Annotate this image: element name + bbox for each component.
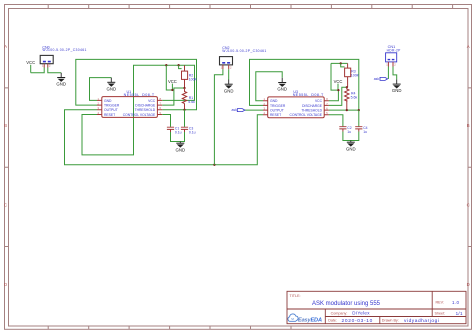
- zone letters left: [4, 44, 7, 287]
- ground (U1): [107, 78, 117, 92]
- capacitor C2: [339, 126, 351, 134]
- svg-text:ask: ask: [232, 108, 238, 112]
- ground (U3): [277, 78, 287, 92]
- wire U3 GND pin to ground symbol: [256, 72, 282, 101]
- wire CN2 pin1 to bottom rail: [214, 69, 223, 165]
- U1 pin stubs left: [97, 100, 102, 114]
- svg-text:A: A: [4, 44, 7, 49]
- wire CONTROL VOLTAGE to C1: [162, 115, 170, 127]
- svg-text:TRIGGER: TRIGGER: [104, 104, 120, 108]
- svg-text:Company:: Company:: [331, 311, 348, 315]
- EasyEDA logo: [288, 314, 322, 323]
- svg-text:RESET: RESET: [270, 113, 281, 117]
- svg-text:CONTROL VOLTAGE: CONTROL VOLTAGE: [123, 113, 156, 117]
- svg-text:1.0: 1.0: [452, 300, 460, 305]
- svg-text:0.1u: 0.1u: [189, 130, 196, 134]
- wire CN0 pin2 to ground: [48, 68, 61, 73]
- ground (CN2): [224, 80, 234, 94]
- svg-text:TRIGGER: TRIGGER: [270, 104, 286, 108]
- svg-text:CONTROL VOLTAGE: CONTROL VOLTAGE: [290, 113, 323, 117]
- svg-text:D: D: [467, 282, 470, 287]
- net flag ask (U3 output): [232, 108, 264, 112]
- CN2 pin 1: [221, 65, 223, 69]
- wire DISCHARGE to R2/R1 node: [162, 88, 184, 105]
- svg-text:D: D: [4, 282, 7, 287]
- svg-text:GND: GND: [224, 88, 234, 93]
- wire rail2 down to VCC label node: [166, 65, 172, 90]
- junction on bottom rail (CN2 tap): [213, 164, 215, 166]
- CN1 pin 1: [386, 62, 388, 67]
- wire OUTPUT of U1 to bottom rail: [65, 110, 264, 165]
- CN2 pin 2: [229, 65, 232, 69]
- svg-text:THRESHOLD: THRESHOLD: [135, 108, 156, 112]
- wire C2/C4 bottoms to ground: [343, 132, 359, 141]
- svg-text:GND: GND: [107, 86, 117, 91]
- wire TRIGGER loop (trigger-threshold): [76, 59, 197, 109]
- svg-text:GND: GND: [270, 99, 278, 103]
- svg-text:RESET: RESET: [104, 113, 115, 117]
- U1 pin names: [104, 99, 120, 117]
- CN0 pin 1: [42, 64, 44, 68]
- svg-text:ask: ask: [374, 77, 380, 81]
- connector CN2: [220, 46, 267, 65]
- svg-text:5.6k: 5.6k: [188, 100, 195, 104]
- svg-text:100K: 100K: [351, 73, 360, 77]
- svg-text:Sheet:: Sheet:: [435, 311, 446, 315]
- wire C1/C3 bottoms to ground: [171, 132, 185, 142]
- svg-text:EasyEDA: EasyEDA: [298, 317, 322, 323]
- svg-text:2020-03-10: 2020-03-10: [342, 318, 374, 324]
- svg-text:NE555L_D08-T: NE555L_D08-T: [293, 93, 324, 97]
- svg-text:DISCHARGE: DISCHARGE: [135, 104, 156, 108]
- svg-text:WJ100-5.00-2P_C30461: WJ100-5.00-2P_C30461: [42, 48, 86, 52]
- zone letters right: [467, 44, 470, 287]
- svg-text:Drawn By:: Drawn By:: [382, 319, 399, 323]
- wire CN1 pin1 down to ask flag: [387, 67, 389, 79]
- connector CN1: [386, 45, 402, 62]
- IC U3 NE555 timer: [268, 90, 325, 118]
- right border zone ticks: [468, 88, 472, 247]
- svg-text:OUTPUT: OUTPUT: [104, 108, 118, 112]
- svg-text:ASK modulator using 555: ASK modulator using 555: [312, 301, 381, 307]
- svg-text:VCC: VCC: [315, 99, 323, 103]
- bottom border zone ticks: [48, 326, 291, 329]
- wire CN2 pin2 to ground: [228, 69, 230, 79]
- svg-text:0.1u: 0.1u: [175, 130, 182, 134]
- capacitor C4: [355, 126, 367, 134]
- wire rail2 jog to R2 body corner: [179, 65, 182, 68]
- ground (CN0): [56, 73, 66, 87]
- wire U1 GND pin to ground symbol: [90, 78, 112, 101]
- svg-text:HDR-2P: HDR-2P: [387, 49, 402, 53]
- svg-text:C: C: [467, 203, 470, 208]
- svg-text:DISCHARGE: DISCHARGE: [302, 104, 323, 108]
- svg-text:DIYelex: DIYelex: [352, 311, 370, 316]
- CN1 pin 2: [393, 62, 396, 67]
- ground (C2/C4): [346, 141, 356, 152]
- U3 pin numbers: [264, 97, 329, 115]
- svg-text:VCC: VCC: [168, 79, 177, 84]
- svg-text:GND: GND: [176, 147, 186, 152]
- svg-text:1u: 1u: [347, 130, 351, 134]
- CN0 pin 2: [48, 64, 51, 68]
- junction VCC label node: [171, 89, 173, 91]
- junction threshold node (U3): [346, 109, 348, 111]
- svg-text:100K: 100K: [189, 77, 198, 81]
- svg-text:B: B: [4, 123, 7, 128]
- resistor R4: [345, 87, 358, 110]
- U3 pin stubs right: [324, 101, 329, 115]
- U3 pin stubs left: [263, 101, 268, 115]
- svg-text:OUTPUT: OUTPUT: [270, 109, 284, 113]
- svg-text:vidyadharjogi: vidyadharjogi: [404, 318, 439, 324]
- wire U3 VCC pin up to mini rail: [329, 90, 339, 101]
- svg-text:1/1: 1/1: [456, 311, 463, 316]
- svg-text:VCC: VCC: [148, 99, 156, 103]
- svg-text:Date:: Date:: [328, 319, 337, 323]
- svg-text:TITLE:: TITLE:: [290, 294, 301, 298]
- svg-text:A: A: [467, 44, 470, 49]
- VCC net label (U1): [168, 79, 177, 90]
- net flag ask (CN1): [374, 77, 388, 81]
- wire CN1 pin2 to ground: [393, 67, 397, 80]
- junction mini rail / R3 corner branch: [340, 62, 342, 64]
- svg-text:GND: GND: [277, 87, 287, 92]
- wire threshold node down to C3: [184, 110, 186, 127]
- junction R3/R4: [346, 86, 348, 88]
- wire jog to R3 body corner: [341, 63, 345, 67]
- resistor R2: [182, 65, 198, 88]
- wire U3 TRIGGER loop: [250, 59, 359, 110]
- svg-text:REV:: REV:: [436, 301, 444, 305]
- svg-text:WJ100-5.00-2P_C30461: WJ100-5.00-2P_C30461: [222, 49, 266, 53]
- svg-text:B: B: [467, 123, 470, 128]
- left border zone ticks: [5, 88, 9, 247]
- wire mini rail to VCC label node: [331, 63, 338, 90]
- wire DISCHARGE (U3) to R3/R4 node: [329, 87, 347, 105]
- junction VCC label node (U3): [337, 89, 339, 91]
- svg-text:NE555L_D08-T: NE555L_D08-T: [124, 93, 155, 97]
- connector CN0: [40, 45, 87, 63]
- svg-text:VCC: VCC: [26, 60, 35, 65]
- svg-text:1u: 1u: [363, 130, 367, 134]
- capacitor C1: [167, 127, 182, 135]
- ground (CN1): [392, 79, 402, 93]
- svg-text:5.6k: 5.6k: [351, 96, 358, 100]
- svg-text:VCC: VCC: [334, 79, 343, 84]
- capacitor C3: [181, 127, 196, 135]
- U1 pin stubs right: [157, 100, 162, 114]
- VCC net label (U3): [334, 79, 343, 90]
- resistor R1: [182, 88, 195, 110]
- wire threshold node down to C4: [358, 110, 360, 126]
- top border zone ticks: [48, 5, 452, 9]
- VCC net label (input): [26, 60, 35, 73]
- wire RESET loop to VCC rail2: [82, 65, 195, 155]
- resistor R3: [345, 63, 360, 87]
- junction rail2 / VCC branch: [165, 64, 167, 66]
- VCC mini rail: [331, 62, 348, 64]
- junction threshold/C4 corner: [358, 109, 360, 111]
- svg-text:GND: GND: [104, 99, 112, 103]
- wire CONTROL VOLTAGE (U3) to C2: [329, 115, 343, 127]
- svg-text:THRESHOLD: THRESHOLD: [301, 109, 322, 113]
- svg-text:C: C: [4, 203, 7, 208]
- junction threshold node: [183, 109, 185, 111]
- svg-text:GND: GND: [56, 82, 66, 87]
- svg-text:GND: GND: [346, 146, 356, 151]
- title block frame: [287, 291, 466, 323]
- U3 pin names: [270, 99, 286, 117]
- IC U1 NE555 timer: [102, 90, 158, 117]
- ground (C1/C3): [176, 142, 186, 153]
- svg-text:GND: GND: [392, 88, 402, 93]
- junction R2/R1/discharge: [183, 87, 185, 89]
- U1 pin numbers: [98, 97, 162, 115]
- junction rail2 / R2 branch: [177, 64, 179, 66]
- wire VCC to CN0 pin1: [31, 68, 45, 73]
